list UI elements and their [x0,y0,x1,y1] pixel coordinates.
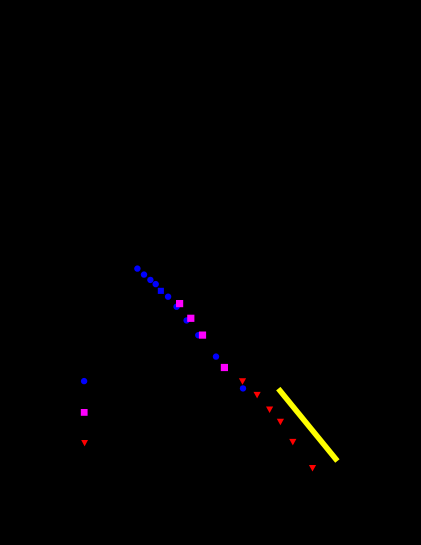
magenta point 2 [187,315,194,322]
blue point 6 [165,294,171,300]
magenta point 1 [176,300,183,307]
legend marker: magenta square [81,409,88,416]
blue point 2 [141,271,147,277]
magenta point 3 [199,332,206,339]
blue point 8 [183,317,189,323]
red point 3 [266,407,273,414]
magenta point 4 [221,364,228,371]
red point 5 [289,439,296,446]
red point 6 [309,465,316,472]
red point 2 [254,392,261,399]
blue point 11 [240,385,246,391]
red point 1 [239,378,246,385]
red point 4 [277,419,284,426]
yellow fit line [278,389,337,461]
legend marker: blue circle [81,378,87,384]
blue point 3 [147,277,153,283]
legend marker: red triangle-down [81,440,88,446]
blue point 1 [134,265,140,271]
blue point 9 [195,332,201,338]
blue point 10 [213,353,219,359]
blue point 5 (square marker) [158,288,164,294]
blue circle series (data points) [134,265,246,391]
blue point 7 [173,304,179,310]
magenta square series (data points) [176,300,228,371]
red triangle-down series (data points) [239,378,316,471]
blue point 4 [153,281,159,287]
